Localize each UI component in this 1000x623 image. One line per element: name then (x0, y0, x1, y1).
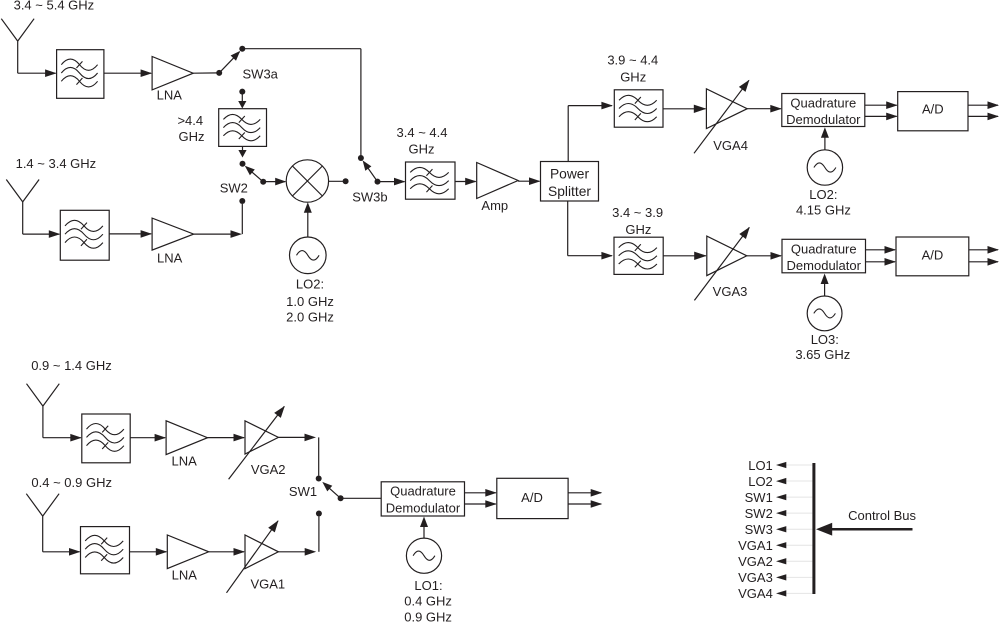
op-amp LNA4 (167, 535, 208, 569)
svg-text:3.65 GHz: 3.65 GHz (795, 347, 850, 362)
wire U5 I output to A/D U6 (465, 492, 496, 494)
svg-text:A/D: A/D (922, 102, 944, 117)
svg-text:Amp: Amp (481, 198, 508, 213)
switch SW3a upper throw node (239, 46, 245, 52)
svg-text:>4.4: >4.4 (177, 113, 203, 128)
wire antenna ANT2 to filter F6 (22, 202, 24, 234)
wire U1 I output to A/D U2 (865, 104, 897, 106)
wire filter F1 to LNA1 (104, 72, 151, 74)
svg-text:GHz: GHz (620, 70, 646, 85)
svg-text:LO2:: LO2: (296, 277, 324, 292)
svg-text:LO3:: LO3: (811, 332, 839, 347)
switch SW2 upper throw node (240, 161, 246, 167)
svg-text:LO2: LO2 (748, 474, 773, 489)
filter F8 (0.4-0.9 GHz) (81, 527, 130, 574)
wire LNA3 to VGA2 (208, 437, 245, 439)
svg-text:GHz: GHz (409, 142, 435, 157)
wire filter F8 to LNA4 (130, 551, 167, 553)
wire U3 Q output to A/D U4 (866, 261, 896, 263)
op-amp LNA1 (152, 57, 193, 90)
wire SW2 pole to mixer M1 (263, 181, 285, 183)
quadrature demodulator U3 (782, 239, 866, 272)
svg-text:VGA1: VGA1 (738, 538, 773, 553)
svg-text:2.0 GHz: 2.0 GHz (286, 309, 334, 324)
filter F7 (0.9-1.4 GHz) (82, 414, 130, 463)
wire LNA1 to switch SW3a pole (193, 72, 219, 74)
svg-text:SW3: SW3 (745, 522, 773, 537)
filter F4 (3.9-4.4 GHz) (614, 90, 663, 127)
wire filter F5 to VGA3 (663, 255, 706, 257)
wire LO3 to U3 (824, 279, 826, 296)
control line VGA2 (786, 560, 812, 562)
wire filter F6 to LNA2 (109, 233, 151, 235)
wire LO2 to U1 (824, 133, 826, 150)
filter F1 (3.4-5.4 GHz bandpass) (57, 50, 104, 99)
wire antenna ANT4 to filter F8 (42, 516, 44, 552)
wire antenna ANT3 to filter F7 (42, 406, 44, 438)
wire splitter to filter F5 (lower branch) (567, 201, 569, 256)
wire LNA2 to switch SW2 lower throw (194, 233, 232, 235)
wire SW3b pole to filter F3 (378, 181, 405, 183)
svg-text:VGA1: VGA1 (250, 577, 285, 592)
svg-text:Demodulator: Demodulator (787, 258, 862, 273)
control line SW1 (786, 496, 812, 498)
wire VGA3 to quadrature demodulator U3 (747, 255, 781, 257)
control bus arrow (832, 528, 913, 531)
filter F6 (1.4-3.4 GHz) (60, 210, 109, 260)
wire U3 I output to A/D U4 (866, 249, 896, 251)
wire VGA4 to quadrature demodulator U1 (747, 108, 781, 110)
svg-text:Splitter: Splitter (548, 184, 591, 199)
switch SW3b pole node (375, 179, 381, 185)
svg-text:SW1: SW1 (289, 484, 317, 499)
antenna ANT2 (6, 180, 22, 202)
oscillator LO2 (mixer) (290, 237, 327, 274)
svg-text:0.9 ~ 1.4 GHz: 0.9 ~ 1.4 GHz (31, 358, 112, 373)
wire U2 I output (968, 104, 998, 106)
antenna ANT4 (26, 494, 42, 516)
switch SW2 lower throw node (239, 198, 245, 204)
switch SW1 arm (325, 484, 341, 498)
svg-text:3.9 ~ 4.4: 3.9 ~ 4.4 (607, 52, 658, 67)
control line VGA4 (786, 592, 812, 594)
control line LO1 (786, 464, 812, 466)
op-amp Amp (477, 163, 518, 199)
wire filter F4 to VGA4 (663, 108, 705, 110)
svg-text:Control Bus: Control Bus (848, 508, 916, 523)
svg-text:LNA: LNA (157, 250, 183, 265)
quadrature demodulator U5 (381, 482, 464, 516)
wire SW3a lower throw to filter F2 (241, 92, 243, 102)
svg-text:SW3b: SW3b (352, 190, 387, 205)
svg-text:SW1: SW1 (745, 490, 773, 505)
antenna ANT3 (27, 384, 43, 406)
svg-text:SW2: SW2 (745, 506, 773, 521)
wire U2 Q output (968, 115, 998, 117)
A/D U6 (497, 478, 568, 518)
wire mixer M1 output to SW3b throw (329, 180, 346, 182)
op-amp VGA2 (245, 421, 278, 454)
filter F3 (3.4-4.4 GHz) (406, 162, 456, 199)
wire U6 I output (568, 492, 601, 494)
quadrature demodulator U1 (782, 94, 865, 127)
wire U5 Q output to A/D U6 (465, 503, 496, 505)
switch SW2 pole node (260, 179, 266, 185)
svg-text:3.4 ~ 5.4 GHz: 3.4 ~ 5.4 GHz (14, 0, 95, 13)
switch SW2 arm (246, 167, 263, 182)
svg-text:VGA2: VGA2 (738, 554, 773, 569)
svg-text:4.15 GHz: 4.15 GHz (796, 202, 851, 217)
svg-text:LNA: LNA (172, 568, 198, 583)
wire U6 Q output (568, 503, 601, 505)
svg-text:0.9 GHz: 0.9 GHz (404, 610, 452, 623)
wire U1 Q output to A/D U2 (865, 115, 897, 117)
svg-text:LO1:: LO1: (414, 578, 442, 593)
op-amp VGA3 (707, 236, 747, 276)
control line SW2 (786, 512, 812, 514)
svg-text:A/D: A/D (521, 490, 543, 505)
op-amp LNA2 (152, 218, 194, 250)
svg-text:VGA3: VGA3 (738, 570, 773, 585)
svg-text:Quadrature: Quadrature (791, 242, 857, 257)
svg-text:LNA: LNA (172, 453, 198, 468)
wire LO1 to U5 (423, 522, 425, 539)
op-amp VGA4 (706, 89, 747, 129)
mixer M1 (286, 160, 328, 202)
svg-text:LNA: LNA (157, 88, 183, 103)
op-amp VGA1 (245, 535, 278, 569)
svg-text:3.4 ~ 4.4: 3.4 ~ 4.4 (397, 125, 448, 140)
switch SW1 lower throw node (316, 511, 322, 517)
svg-text:1.4 ~ 3.4 GHz: 1.4 ~ 3.4 GHz (16, 156, 97, 171)
svg-text:LO2:: LO2: (809, 187, 837, 202)
svg-text:0.4 GHz: 0.4 GHz (404, 593, 452, 608)
wire LO2 to mixer M1 (307, 208, 309, 238)
svg-text:1.0 GHz: 1.0 GHz (286, 294, 334, 309)
svg-text:SW2: SW2 (220, 181, 248, 196)
wire VGA1 to switch SW1 lower throw (278, 551, 307, 553)
svg-text:VGA4: VGA4 (713, 138, 748, 153)
svg-text:SW3a: SW3a (243, 67, 279, 82)
switch SW1 pole node (338, 495, 344, 501)
control line VGA1 (786, 544, 812, 546)
switch SW3a pole node (216, 70, 222, 76)
switch SW3b arm (364, 163, 377, 182)
op-amp LNA3 (166, 421, 207, 455)
oscillator LO1 (0.4/0.9 GHz) (406, 538, 441, 573)
svg-text:Quadrature: Quadrature (390, 484, 456, 499)
wire SW3a to SW3b (bypass path) (242, 48, 361, 50)
power splitter PS1 (541, 162, 599, 202)
filter F2 (>4.4 GHz) (219, 109, 267, 147)
svg-text:A/D: A/D (922, 248, 944, 263)
switch SW3a arm (219, 52, 239, 73)
svg-text:LO1: LO1 (748, 458, 773, 473)
svg-text:VGA2: VGA2 (251, 462, 286, 477)
svg-text:Demodulator: Demodulator (786, 112, 861, 127)
filter F5 (3.4-3.9 GHz) (614, 237, 663, 274)
wire antenna ANT1 to filter F1 (17, 41, 19, 73)
antenna ANT1 (1, 19, 17, 41)
wire filter F3 to Amp (455, 181, 476, 183)
switch SW3b upper throw node (358, 155, 364, 161)
wire U4 I output (969, 249, 998, 251)
oscillator LO3 (3.65 GHz) (807, 296, 842, 331)
oscillator LO2 (4.15 GHz) (807, 150, 842, 185)
svg-text:GHz: GHz (179, 129, 205, 144)
control line VGA3 (786, 576, 812, 578)
wire LNA4 to VGA1 (209, 551, 244, 553)
wire filter F2 to switch SW2 upper throw (242, 146, 244, 150)
A/D U2 (898, 92, 968, 131)
A/D U4 (896, 237, 969, 276)
wire U4 Q output (969, 261, 998, 263)
switch SW3b left throw node (343, 178, 349, 184)
svg-text:Power: Power (550, 167, 590, 182)
svg-text:VGA4: VGA4 (738, 586, 773, 601)
wire SW1 pole to quadrature demodulator U5 (341, 497, 382, 499)
switch SW3a lower throw node (239, 89, 245, 95)
svg-text:0.4 ~ 0.9 GHz: 0.4 ~ 0.9 GHz (31, 475, 112, 490)
wire splitter to filter F4 (upper branch) (567, 106, 569, 162)
svg-text:Quadrature: Quadrature (790, 96, 856, 111)
svg-text:3.4 ~ 3.9: 3.4 ~ 3.9 (612, 205, 663, 220)
switch SW1 upper throw node (316, 476, 322, 482)
wire Amp to power splitter (518, 180, 539, 182)
svg-text:Demodulator: Demodulator (386, 501, 461, 516)
svg-text:VGA3: VGA3 (713, 284, 748, 299)
control line SW3 (786, 528, 812, 530)
svg-text:GHz: GHz (625, 222, 651, 237)
control bus bar (812, 463, 815, 594)
wire filter F7 to LNA3 (130, 437, 165, 439)
control line LO2 (786, 480, 812, 482)
wire VGA2 to switch SW1 upper throw (278, 436, 307, 438)
